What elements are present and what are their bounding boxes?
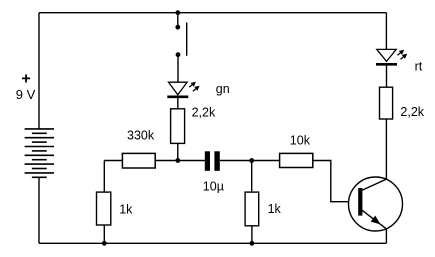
node top rail / switch junction [175,10,180,15]
label 2,2k gn [192,105,216,119]
label battery plus [21,71,30,88]
node mid junction gn [175,158,180,163]
resistor 1k right [245,192,259,226]
LED rt triangle [377,49,396,61]
wire right rail top [385,13,387,50]
svg-text:2,2k: 2,2k [192,105,216,119]
label 330k [127,129,155,143]
label 10k [290,133,311,147]
resistor 330k [122,153,155,168]
wire emitter to bottom rail [385,229,387,243]
wire 10k to base [313,161,359,202]
resistor 10k [280,153,313,167]
wire switch upper stem [177,13,179,28]
node bottom junction left [102,241,107,246]
LED rt light arrows [396,48,409,61]
label 1k left [119,202,133,216]
label 10u [203,179,224,193]
wire 1k right to bottom rail [251,226,253,244]
label rt [415,59,423,73]
wire left rail upper [38,13,40,130]
battery 9V [25,129,54,177]
LED gn triangle [169,82,188,95]
label gn [216,82,230,96]
resistor 2,2k gn branch [171,109,185,144]
label 2,2k rt [400,105,424,119]
transistor emitter line [362,210,387,229]
svg-text:1k: 1k [268,202,282,216]
switch contact upper dot [175,25,180,30]
wire mid left drop to 1k [103,161,105,193]
wire LED rt to resistor [386,64,388,87]
node mid junction right [249,158,254,163]
svg-text:1k: 1k [119,202,133,216]
resistor 1k left [97,192,111,225]
label battery 9 V [16,87,36,102]
LED rt cathode bar [376,63,397,66]
wire LED gn to resistor [177,97,179,109]
capacitor 10u plate left [205,151,210,171]
wire 1k left to bottom rail [103,225,105,243]
switch lever [186,23,188,56]
wire left rail lower [38,177,40,243]
wire capacitor to 10k [220,160,280,162]
node bottom junction right [250,241,255,246]
transistor circle [349,177,403,231]
svg-text:10µ: 10µ [203,179,224,193]
resistor 2,2k rt branch [380,87,393,119]
label 1k right [268,202,282,216]
svg-text:rt: rt [415,59,423,73]
capacitor 10u plate right [214,151,219,171]
svg-text:+: + [21,71,30,88]
wire resistor rt to collector [385,119,387,179]
wire mid left segment [104,160,122,162]
svg-text:2,2k: 2,2k [400,105,424,119]
svg-text:9 V: 9 V [16,87,36,102]
wire top rail [39,12,386,14]
wire junction to 1k right [251,161,253,193]
svg-text:gn: gn [216,82,230,96]
svg-text:10k: 10k [290,133,311,147]
svg-text:330k: 330k [127,129,155,143]
switch contact lower dot [176,52,181,57]
wire resistor gn to mid node [177,143,179,160]
transistor base bar [358,188,362,216]
wire switch lower stem [177,55,179,83]
LED gn cathode bar [167,96,188,99]
wire 330k to capacitor [155,160,205,162]
transistor collector line [362,179,387,190]
LED gn light arrows [188,80,201,93]
wire bottom rail [39,242,386,244]
